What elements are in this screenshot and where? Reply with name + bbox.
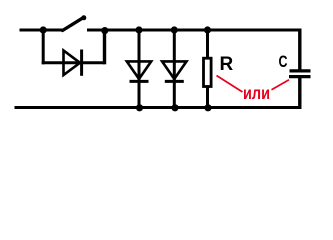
diode D3 branch wire — [173, 30, 176, 108]
capacitor C top plate — [290, 69, 311, 72]
diode D3 cathode bar — [165, 80, 184, 83]
svg-text:или: или — [243, 83, 270, 103]
red annotation line to R — [217, 76, 243, 93]
capacitor C bottom plate — [289, 75, 311, 78]
diode D2 branch wire — [138, 30, 141, 108]
junction dot bottom 3 — [204, 104, 211, 111]
wire bypass branch left riser — [42, 30, 45, 64]
wire bypass branch horizontal — [42, 61, 105, 64]
red annotation line to C — [272, 80, 290, 90]
resistor R branch upper lead — [206, 30, 209, 58]
junction dot bottom 1 — [136, 104, 143, 111]
diode D2 cathode bar — [130, 80, 149, 83]
junction dot top 3 — [135, 26, 142, 33]
switch S1 blade — [63, 18, 84, 31]
svg-text:R: R — [220, 54, 234, 75]
switch S1 blade tip blob — [81, 15, 86, 20]
resistor R lower lead — [206, 87, 209, 108]
wire bypass branch right riser — [103, 30, 106, 64]
diode D1 cathode bar — [80, 50, 83, 76]
diode D3 triangle (pointing down) — [162, 61, 186, 79]
junction dot top 1 — [40, 26, 47, 33]
svg-text:C: C — [279, 52, 288, 71]
wire top-left segment — [20, 29, 64, 32]
resistor R body — [204, 58, 212, 86]
wire top segment right of switch — [87, 29, 302, 32]
wire right vertical upper (to capacitor) — [298, 29, 301, 71]
wire bottom rail — [15, 106, 302, 109]
junction dot top 4 — [171, 26, 178, 33]
junction dot top 2 — [101, 27, 108, 34]
diode D1 (bypass, pointing right) triangle — [64, 51, 81, 76]
wire right vertical lower (from capacitor) — [298, 77, 301, 110]
diode D2 triangle (pointing down) — [127, 61, 151, 79]
junction dot top 5 — [204, 26, 211, 33]
junction dot bottom 2 — [171, 104, 178, 111]
